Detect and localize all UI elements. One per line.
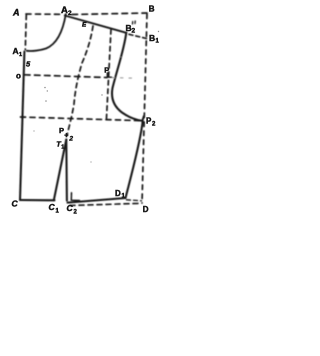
wire slanted dart guide line (dashed) — [67, 26, 93, 136]
wire bust line to P2 (dashed) — [21, 117, 143, 121]
wire bottom waist C to C1 (solid) — [20, 199, 55, 201]
wire B2 to B1 connector (dashed) — [129, 34, 147, 38]
svg-text:A: A — [13, 46, 19, 56]
svg-text:D: D — [143, 205, 149, 214]
svg-text:C: C — [67, 203, 74, 213]
svg-text:B: B — [149, 33, 155, 43]
svg-text:2: 2 — [68, 10, 72, 17]
svg-text:P: P — [59, 126, 64, 135]
svg-text:2: 2 — [152, 122, 156, 128]
wire waist C2 to D1 (solid) — [68, 198, 126, 203]
svg-text:A: A — [12, 8, 20, 18]
wire chest line from O (dashed) — [25, 75, 108, 78]
svg-text:B: B — [149, 5, 155, 14]
wire top edge A2 to B (dashed) — [72, 13, 147, 15]
svg-text:C: C — [49, 202, 56, 212]
svg-text:2: 2 — [132, 28, 136, 35]
neckline curve A2 to A1 (solid) — [27, 14, 66, 51]
svg-text:1: 1 — [61, 145, 64, 151]
dart left leg C1 to apex (solid) — [54, 140, 67, 201]
svg-text:D: D — [115, 189, 121, 198]
paper speckles — [33, 31, 159, 163]
right angle mark at C2 — [71, 193, 79, 201]
wire left side seam A1 to C (solid) — [20, 52, 24, 201]
shoulder line A2 to B2 (solid) — [65, 16, 127, 33]
svg-text:1: 1 — [56, 209, 60, 215]
wire vertical drop line below shoulder (dashed) — [106, 30, 111, 123]
svg-text:+: + — [64, 132, 68, 139]
svg-text:2: 2 — [74, 210, 78, 216]
svg-text:1: 1 — [19, 52, 22, 58]
svg-text:1: 1 — [156, 39, 160, 45]
wire D1 to right edge (dashed) — [127, 200, 142, 201]
svg-text:C: C — [12, 199, 19, 209]
wire bottom edge to D (dashed) — [70, 203, 142, 205]
armhole curve B2 to P2 (solid) — [112, 33, 144, 121]
svg-text:5: 5 — [26, 60, 31, 69]
svg-text:o: o — [16, 72, 21, 81]
wire right edge B to D (dashed) — [142, 14, 147, 203]
tick marks above B2 — [133, 21, 136, 24]
dart right leg apex to C2 (solid) — [65, 140, 68, 201]
svg-text:E: E — [82, 22, 87, 29]
right angle mark near P — [107, 73, 111, 77]
wire top edge A to A2 (dashed) — [26, 13, 60, 15]
svg-text:A: A — [61, 5, 68, 16]
faint continuation of chest line (dashed) — [112, 77, 136, 80]
wire left edge A to A1 (dashed) — [25, 15, 26, 50]
side seam P2 to D1 (solid) — [126, 121, 143, 198]
svg-text:2: 2 — [68, 135, 73, 142]
svg-text:P: P — [104, 66, 109, 75]
